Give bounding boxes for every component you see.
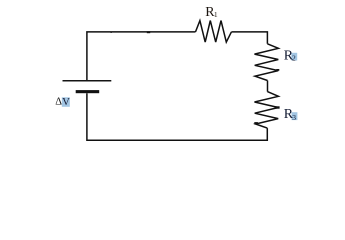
- svg-text:3: 3: [292, 113, 296, 122]
- resistor R3: [255, 92, 279, 129]
- wire between R2 and R3: [267, 81, 269, 92]
- junction dash at R3 right vertex: [275, 106, 280, 108]
- resistor R1: [196, 21, 232, 42]
- junction tick on top wire: [110, 31, 112, 33]
- label delta-V: [55, 97, 70, 108]
- highlight behind V: [62, 97, 70, 107]
- wire top-right (R1 to top-right corner, down to R2): [231, 32, 267, 44]
- svg-text:V: V: [62, 97, 70, 108]
- label R3: [284, 107, 296, 122]
- junction dash at R2 vertex: [276, 69, 279, 71]
- wire left-top (battery + plate up to top-left corner and across to R1): [87, 32, 196, 80]
- svg-text:1: 1: [214, 10, 218, 19]
- highlight behind subscript 3: [292, 112, 298, 120]
- battery negative plate: [76, 90, 100, 93]
- battery positive plate: [63, 80, 112, 82]
- junction blob at R3 left vertex: [254, 122, 258, 124]
- highlight behind subscript 2: [291, 53, 297, 61]
- resistor R2: [255, 44, 279, 81]
- svg-text:2: 2: [292, 54, 296, 63]
- junction dash on top wire: [147, 31, 150, 33]
- label R2: [284, 48, 296, 63]
- wire bottom (R3 down, bottom wire, up to battery - plate): [87, 93, 267, 140]
- label R1: [205, 5, 218, 20]
